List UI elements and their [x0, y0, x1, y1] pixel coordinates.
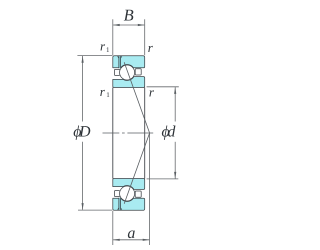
dimension phiD extension line bottom [78, 209, 112, 211]
counterbore seam shading (top section) [119, 56, 121, 68]
svg-text:B: B [124, 6, 134, 25]
wire: left bearing face line between sections [112, 88, 114, 179]
counterbore seam shading (bottom section) [119, 198, 121, 210]
cage right pocket (top section) [135, 69, 141, 75]
svg-text:a: a [127, 225, 135, 242]
node: top bearing section [113, 56, 145, 88]
svg-text:1: 1 [106, 91, 110, 99]
dimension phiD line with arrows [82, 56, 84, 122]
counterbore seam lines (bottom section) [118, 198, 120, 210]
svg-text:1: 1 [106, 46, 110, 54]
svg-text:ϕd: ϕd [162, 123, 176, 140]
dimension a extension line left [112, 211, 114, 245]
dimension phid line with arrows [174, 87, 176, 121]
dimension a line with arrows [113, 239, 149, 241]
dimension phiD extension line top [77, 55, 112, 57]
dimension phid extension line bottom [147, 178, 179, 180]
dimension B extension line left [112, 19, 114, 55]
ball (bottom section) [120, 186, 135, 201]
ball (top section) [120, 65, 135, 80]
node: bottom bearing section (mirror of top) [113, 179, 145, 211]
contact angle line (top) [124, 62, 149, 133]
inner ring (top section) [113, 77, 145, 88]
contact angle line (bottom) [124, 133, 149, 204]
counterbore seam lines (top section) [118, 56, 120, 68]
cage left pocket (bottom section) [114, 191, 119, 197]
outer ring (top section) [113, 56, 145, 68]
dimension B extension line right [144, 19, 146, 55]
cage right pocket (bottom section) [135, 191, 141, 197]
wire: right bearing face line between sections [144, 88, 146, 179]
dimension a extension line right (load centre line) [149, 133, 151, 245]
cage left pocket (top section) [114, 69, 119, 75]
centerline (bearing axis) [103, 132, 154, 134]
svg-text:ϕD: ϕD [73, 123, 91, 140]
inner ring (bottom section) [113, 179, 145, 190]
dimension B line with arrows [113, 24, 144, 26]
outer ring (bottom section) [113, 198, 145, 210]
dimension phid extension line top [147, 86, 179, 88]
